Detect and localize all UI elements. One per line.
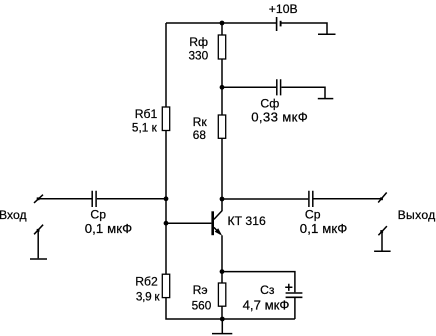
resistor R2 (Rк)	[218, 115, 225, 138]
svg-text:68: 68	[193, 128, 207, 142]
label 0,33 мкФ	[251, 109, 308, 124]
svg-text:Rб1: Rб1	[135, 107, 158, 121]
label Rб2	[135, 274, 158, 288]
label Rк	[193, 115, 208, 129]
wire	[222, 86, 276, 88]
label 0,1 мкФ	[85, 221, 133, 236]
wire	[38, 198, 92, 200]
label 4,7 мкФ	[243, 297, 290, 312]
svg-text:4,7 мкФ: 4,7 мкФ	[243, 297, 290, 312]
label 5,1 к	[132, 120, 158, 134]
svg-text:Ср: Ср	[305, 207, 321, 221]
wire (ground stub)	[221, 319, 223, 333]
wire	[313, 198, 381, 200]
label 0,1 мкФ (output)	[300, 221, 348, 236]
label Сз	[260, 283, 275, 297]
node E (collector)	[220, 197, 225, 202]
svg-text:Rэ: Rэ	[193, 283, 208, 297]
ground	[318, 98, 334, 100]
capacitor C4 (Сз) electrolytic plates	[286, 293, 303, 297]
label 560	[192, 298, 212, 312]
wire (emitter)	[221, 235, 223, 271]
battery GB1 negative plate	[280, 21, 282, 27]
node C (input junction)	[164, 196, 169, 201]
svg-text:5,1 к: 5,1 к	[132, 120, 158, 134]
svg-text:+10В: +10В	[269, 2, 298, 16]
label Сф	[260, 96, 279, 110]
wire (base)	[166, 222, 211, 224]
svg-text:Выход: Выход	[398, 208, 436, 222]
label Rэ	[193, 283, 208, 297]
svg-text:560: 560	[192, 298, 212, 312]
wire	[221, 23, 223, 35]
label 3,9 к	[136, 290, 160, 304]
wire	[281, 23, 327, 34]
label Вход	[0, 208, 27, 222]
wire	[222, 272, 295, 293]
label Rф	[189, 35, 208, 49]
wire	[221, 59, 223, 87]
output ground terminal	[378, 226, 387, 251]
ground	[318, 33, 336, 35]
svg-text:Сз: Сз	[260, 283, 275, 297]
resistor R5 (Rэ)	[218, 283, 225, 306]
label Ср	[90, 207, 106, 221]
svg-text:Ср: Ср	[90, 207, 106, 221]
svg-text:0,1 мкФ: 0,1 мкФ	[85, 221, 133, 236]
svg-text:3,9 к: 3,9 к	[136, 290, 160, 304]
transistor VT1 emitter lead with arrow	[214, 227, 222, 235]
label КТ 316	[228, 214, 266, 228]
transistor VT1 КТ316 base bar	[211, 211, 214, 235]
capacitor C3 (Ср output) plates	[309, 191, 313, 207]
wire	[165, 131, 167, 275]
svg-text:Rк: Rк	[193, 115, 208, 129]
label +10В	[269, 2, 298, 16]
wire (left column top)	[165, 23, 167, 107]
svg-text:Сф: Сф	[260, 96, 279, 110]
wire	[97, 198, 166, 200]
wire	[166, 298, 295, 319]
label 68	[193, 128, 207, 142]
resistor R3 (Rб1)	[162, 107, 169, 131]
svg-text:330: 330	[189, 49, 209, 63]
resistor R4 (Rб2)	[162, 274, 169, 297]
output terminal	[378, 193, 387, 203]
wire	[166, 22, 276, 24]
node F (emitter junction)	[220, 269, 225, 274]
battery GB1 +10V positive plate	[276, 17, 278, 31]
node D (base junction)	[164, 221, 169, 226]
wire (output)	[222, 198, 308, 200]
label Rб1	[135, 107, 158, 121]
label Ср (output)	[305, 207, 321, 221]
label 330	[189, 49, 209, 63]
input ground terminal	[34, 225, 43, 259]
svg-text:КТ 316: КТ 316	[228, 214, 266, 228]
wire	[221, 87, 223, 115]
ground	[374, 250, 391, 252]
node G (ground junction)	[220, 317, 225, 322]
svg-text:0,33 мкФ: 0,33 мкФ	[251, 109, 308, 124]
svg-text:Rб2: Rб2	[135, 274, 158, 288]
transistor VT1 collector lead	[214, 199, 222, 219]
svg-text:Rф: Rф	[189, 35, 208, 49]
label + (polarity)	[285, 284, 292, 291]
wire	[221, 138, 223, 199]
svg-text:0,1 мкФ: 0,1 мкФ	[300, 221, 348, 236]
label Выход	[398, 208, 436, 222]
capacitor C1 (Сф) plates	[277, 79, 281, 95]
svg-text:Вход: Вход	[0, 208, 27, 222]
input terminal	[34, 195, 43, 203]
resistor R1 (Rф)	[218, 35, 225, 59]
wire	[294, 298, 296, 319]
ground	[30, 258, 47, 260]
wire	[221, 272, 223, 319]
ground	[212, 333, 232, 335]
node A (supply rail)	[220, 21, 225, 26]
wire	[281, 87, 325, 98]
capacitor C2 (Ср input) plates	[92, 191, 96, 207]
node B (filter node)	[220, 85, 225, 90]
